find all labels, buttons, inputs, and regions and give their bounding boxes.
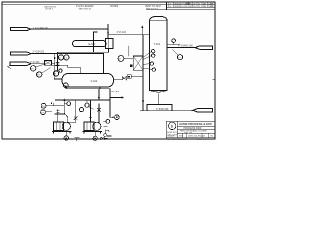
sheet inner top margin line: [2, 3, 167, 5]
svg-text:FILE 100-PID-001.DWG: FILE 100-PID-001.DWG: [167, 139, 188, 141]
svg-text:LG: LG: [64, 85, 67, 87]
wire: heated feed line to column: [108, 34, 150, 36]
logo circle: [169, 122, 176, 129]
instrument bubble LC: [64, 55, 69, 60]
drain assembly bottom center: [104, 126, 107, 128]
flow arrow drop manifold to header: [98, 89, 100, 100]
title block: [166, 121, 215, 141]
drum tag text: [91, 79, 98, 83]
instrument bubble LT: [118, 56, 124, 62]
wire: suction header: [55, 99, 110, 101]
wire: shell outlet continues down: [57, 52, 59, 70]
svg-text:ISSUED FOR USE: ISSUED FOR USE: [174, 6, 192, 8]
pump P-101A casing: [62, 122, 70, 130]
wire: drum outlet right: [99, 87, 101, 89]
drain valve right of pump B: [101, 137, 105, 140]
svg-text:MN: MN: [203, 6, 207, 8]
level bridle box: [133, 56, 143, 70]
note text top area 4: [145, 5, 161, 10]
svg-text:NOTE 2: NOTE 2: [111, 91, 120, 93]
wire: drop from feed2 line: [54, 54, 56, 79]
svg-text:ENG CORP: ENG CORP: [168, 135, 178, 137]
wire: feed 1 drop to exchanger head: [107, 25, 109, 39]
svg-text:3"-P-104: 3"-P-104: [117, 31, 127, 34]
svg-text:2"-CW-102: 2"-CW-102: [33, 50, 45, 53]
drain circle: [115, 115, 120, 120]
drum V-102 horizontal vessel: [62, 74, 114, 88]
instrument bubble pump suction right: [85, 103, 89, 107]
border zone tick right: [213, 78, 215, 80]
svg-text:T-101: T-101: [154, 42, 161, 46]
pipe label bottoms: [156, 109, 169, 111]
wire: left pump suction riser with up arrow: [63, 101, 65, 115]
column bottom dish: [150, 91, 167, 93]
wire: column bottoms outlet: [157, 94, 159, 105]
control valve box on feed 3: [45, 60, 52, 65]
stream flag 3 (lower left feed): [10, 62, 31, 65]
wire: small bypass L: [53, 103, 64, 106]
instrument bubble FC: [37, 72, 42, 77]
svg-text:FC: FC: [37, 75, 40, 77]
filled square mark: [130, 65, 133, 68]
svg-text:ACME PROCESS & EPC: ACME PROCESS & EPC: [179, 122, 213, 126]
wire: right pump suction with arrow: [90, 100, 92, 122]
wire: valve outlet to drop: [52, 63, 55, 65]
svg-text:UNIT 100: UNIT 100: [184, 132, 192, 134]
valve on vapor line: [122, 76, 127, 80]
text to flare: [111, 91, 120, 93]
pump P-101B casing: [93, 122, 101, 130]
wire: suction horizontal to pump: [55, 113, 65, 115]
pipe label to column: [117, 31, 127, 34]
svg-text:PG: PG: [41, 112, 44, 114]
wire: right pump discharge riser: [98, 104, 100, 122]
flange ticks: [57, 110, 59, 112]
underline below note 4: [146, 8, 167, 10]
svg-text:LC: LC: [65, 57, 68, 59]
note text top area 2: [76, 5, 94, 10]
pipe label feed 3: [30, 61, 40, 64]
svg-text:E-101: E-101: [89, 42, 96, 46]
stream flag bottoms out: [193, 109, 213, 112]
wire: column feed drop (bottoms transfer): [142, 35, 144, 111]
flow arrow down: [142, 100, 144, 104]
instrument bubble LI: [58, 55, 63, 60]
column T-101: [150, 16, 167, 90]
wire: left pump discharge riser: [75, 100, 77, 122]
valve on shell outlet drop: [56, 62, 59, 66]
instrument bubble on drum lower left: [63, 83, 68, 88]
svg-text:2"-P-103: 2"-P-103: [30, 61, 40, 64]
wire: drum vapor line right: [114, 79, 123, 81]
exchanger E-101 channel head: [106, 39, 114, 49]
exchanger E-101 shell: [73, 41, 107, 47]
note text top area 3: [110, 5, 119, 8]
wire: feed 1 line: [31, 28, 108, 30]
leader line FC: [42, 68, 51, 73]
pump P-101B motor: [84, 122, 94, 131]
junction dot on drop: [54, 57, 56, 59]
stream flag overhead out: [195, 46, 212, 49]
instrument bubbles bottom left: [41, 103, 46, 108]
svg-text:NTS: NTS: [179, 135, 184, 137]
wire: drop into pump: [57, 110, 59, 123]
svg-text:3"-BTM-108: 3"-BTM-108: [156, 109, 169, 111]
wire: feed2 drop to drum top: [103, 54, 105, 74]
pump P-101A motor: [54, 122, 64, 131]
wire: diagonal suction jog: [64, 113, 67, 122]
leader PT: [173, 50, 179, 56]
svg-text:DATE: DATE: [208, 5, 214, 8]
logo text: [167, 131, 178, 137]
pipe label feed 2: [33, 50, 45, 53]
pipe label feed 1: [33, 27, 49, 30]
check valve right discharge: [97, 108, 100, 111]
check valve left discharge: [74, 117, 77, 120]
small inline instrument circle: [59, 69, 62, 72]
wire: discharge jogs over pumps: [66, 121, 99, 123]
revision table top right: [167, 2, 215, 10]
exchanger E-101 tag text: [89, 42, 96, 46]
leader line FI: [36, 64, 46, 67]
drain arrow: [112, 116, 114, 118]
wire: bottoms line to flag: [141, 110, 193, 112]
stream flag 1 (top left feed): [11, 28, 32, 31]
solenoid box on vapor line: [127, 75, 131, 79]
nozzle circle on column right: [172, 39, 176, 43]
svg-text:SHEET 1 OF 1: SHEET 1 OF 1: [196, 139, 209, 141]
tap lines bridle to nozzles: [143, 51, 152, 69]
instrument bubble on drum left top: [53, 71, 58, 76]
instrument bubble pump suction left: [67, 102, 71, 106]
column weld line: [150, 20, 167, 22]
svg-text:V-102: V-102: [91, 79, 98, 83]
wire: drum inlet jog: [50, 65, 81, 73]
leader line above bridle: [128, 46, 130, 56]
svg-text:4"-OVHD-106: 4"-OVHD-106: [178, 44, 193, 47]
instrument bubble PT on overhead: [177, 55, 182, 60]
svg-text:NOTE 1: NOTE 1: [46, 9, 54, 11]
wire: feed 3 line: [31, 63, 45, 65]
wire: flare stub with arrow: [110, 97, 122, 99]
svg-text:PG: PG: [42, 106, 45, 108]
sheet outer border: [2, 2, 215, 139]
wire: seal loop: [147, 105, 172, 111]
vent line with up arrow: [141, 28, 143, 35]
wire: feed 2 line: [31, 53, 104, 55]
wire: drop into drum left: [55, 78, 62, 80]
wire: vapor line to riser: [131, 76, 143, 78]
left border small mark: [8, 65, 11, 68]
nozzle circles on column wall: [152, 50, 155, 53]
svg-text:SEE DWG 02: SEE DWG 02: [79, 8, 93, 10]
svg-text:NOTES: NOTES: [110, 5, 119, 8]
instrument bubble FI: [31, 66, 36, 71]
pump P-101B baseline: [83, 132, 102, 134]
flow arrow on exchanger inlet: [107, 32, 109, 35]
pump P-101B drain pot: [94, 132, 96, 137]
wire: tube outlet from head bottom: [58, 49, 109, 53]
wire: drum outlet left: [65, 87, 67, 89]
pump P-101A drain pot: [65, 132, 67, 136]
leader LT to bridle: [124, 58, 133, 60]
pump P-101A baseline: [53, 132, 72, 134]
stream flag 2 (mid left feed): [11, 52, 32, 55]
svg-text:ACME INTL: ACME INTL: [167, 131, 177, 134]
small bubble right of pumps: [106, 120, 110, 124]
instrument bubble right lower: [79, 108, 83, 112]
svg-text:DWG 100-PID-001: DWG 100-PID-001: [188, 135, 206, 137]
wire: drain drop at right: [110, 89, 113, 118]
wire: bottoms manifold: [66, 88, 110, 90]
pipe label overhead: [178, 44, 193, 47]
column tag text: [154, 42, 161, 46]
wire: branch into shell at x93.5: [94, 32, 98, 52]
wire: overhead line from column: [167, 47, 195, 49]
note text top area 1: [44, 5, 57, 10]
drain marks A: [75, 138, 80, 141]
